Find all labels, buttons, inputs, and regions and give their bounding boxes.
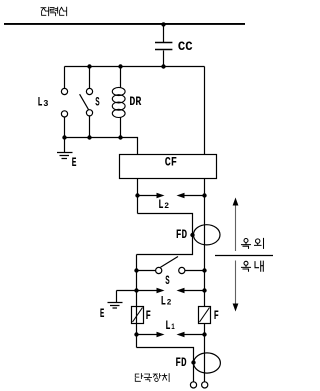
node: junction dot CC bottom on rail — [161, 64, 165, 68]
terminal circle S2 left — [156, 267, 162, 273]
node: dot row2 left — [134, 288, 138, 292]
svg-text:L: L — [158, 197, 163, 212]
국 — [145, 374, 150, 376]
node: dot S2 right — [202, 268, 206, 272]
node: dot S2 left — [134, 268, 138, 272]
svg-text:L: L — [165, 318, 170, 333]
치 — [162, 374, 166, 380]
내 — [255, 262, 259, 268]
wire S2 right lead — [185, 270, 205, 272]
svg-text:FD: FD — [175, 355, 186, 370]
장 — [153, 374, 157, 377]
node: junction dot rail/L3-ground — [62, 135, 66, 139]
선 — [59, 7, 63, 11]
wire CC lower stem — [163, 51, 165, 67]
arrowhead up — [233, 198, 239, 206]
전 — [41, 8, 46, 11]
svg-text:CF: CF — [165, 155, 177, 170]
terminal circle S1 upper — [86, 88, 92, 94]
dimension arrow row2 right (L2) — [183, 290, 205, 292]
span arrow line (outdoor) — [235, 204, 237, 252]
svg-text:L: L — [161, 293, 166, 308]
wire top rail — [65, 66, 205, 68]
label 옥외 (outdoor) hand-drawn hangul — [242, 238, 264, 248]
ground E1 stem — [64, 138, 66, 153]
node: junction dot rail/S1 — [87, 135, 91, 139]
wire DR branch upper — [120, 67, 122, 88]
wire CC upper stem — [163, 24, 165, 42]
switch S2 blade — [161, 257, 179, 268]
svg-text:3: 3 — [43, 98, 49, 109]
svg-text:DR: DR — [129, 94, 141, 109]
svg-text:FD: FD — [176, 227, 187, 242]
wire bottom rail of arrester section — [65, 138, 138, 156]
wire S2 left lead — [137, 270, 156, 272]
svg-text:S: S — [165, 273, 169, 288]
wire S1 branch upper — [89, 67, 91, 89]
transformer ring FD1 — [193, 225, 220, 245]
wire left drop to S2 — [136, 255, 138, 272]
transformer ring FD2 — [194, 353, 221, 373]
label 단국장치 (terminal equipment) hand-drawn hangul — [135, 374, 169, 382]
node: dot row1 left — [135, 193, 139, 197]
node: dot row3 right — [202, 332, 206, 336]
arrowhead down — [233, 304, 239, 312]
fuse F right — [199, 307, 211, 324]
terminal circle L3 lower — [61, 111, 67, 117]
wire DR branch lower — [120, 118, 122, 138]
svg-text:2: 2 — [164, 201, 169, 211]
wire L3 branch upper — [64, 67, 66, 89]
capacitor CC — [155, 43, 172, 50]
dimension arrow row1 right (L2) — [183, 195, 205, 197]
단 — [135, 374, 139, 377]
partition line indoor/outdoor — [215, 255, 273, 257]
box CF (coupling filter) — [120, 155, 217, 179]
wire right main line below CF — [204, 179, 206, 382]
inductor DR coil — [112, 87, 125, 117]
ground E2 stem — [116, 291, 118, 303]
wire jog3 to FD2 — [137, 348, 194, 382]
node: dot FD1 tap — [190, 233, 194, 237]
label 옥내 (indoor) hand-drawn hangul — [242, 261, 264, 271]
svg-text:F: F — [146, 308, 151, 323]
wire right riser from rail to CF — [204, 67, 206, 156]
wire left vertical row2-jog3 — [136, 271, 138, 348]
svg-text:1: 1 — [171, 322, 175, 332]
wire left drop below CF — [137, 179, 139, 214]
ground E1 symbol — [57, 153, 73, 159]
wire jog1 to FD1 — [137, 214, 193, 255]
node: dot row1 right — [202, 193, 206, 197]
외 — [256, 239, 260, 243]
dimension arrow row3 right (L1) — [183, 334, 205, 336]
svg-text:F: F — [214, 308, 219, 323]
dimension arrow row1 left (L2) — [138, 195, 159, 197]
svg-text:E: E — [72, 155, 77, 170]
node: dot row3 left — [134, 332, 138, 336]
dimension arrow row2 left (L2) — [137, 290, 159, 292]
옥 — [244, 261, 248, 265]
svg-text:CC: CC — [178, 39, 193, 54]
switch S1 blade — [80, 94, 89, 109]
wire ground E2 lead — [117, 290, 137, 292]
fuse F left — [132, 307, 144, 324]
terminal circle bottom left — [190, 382, 196, 388]
terminal circle bottom right — [202, 382, 208, 388]
label 전력선 (power line) hand-drawn hangul — [41, 7, 67, 16]
ground E2 symbol — [108, 303, 123, 309]
svg-text:2: 2 — [167, 297, 172, 307]
svg-text:L: L — [38, 95, 43, 110]
dimension arrow row3 left (L1) — [137, 334, 159, 336]
power line (전력선) — [4, 23, 245, 25]
wire S1 branch lower — [89, 116, 91, 138]
력 — [50, 8, 54, 12]
옥 — [244, 239, 248, 243]
terminal circle S1 lower — [86, 110, 92, 116]
svg-text:S: S — [95, 94, 99, 109]
node: junction dot S1 top — [87, 64, 91, 68]
node: junction dot rail/DR — [118, 135, 122, 139]
wire L3 branch lower — [64, 117, 66, 138]
node: junction dot power line / CC — [161, 22, 165, 26]
span arrow line (indoor) — [235, 261, 237, 304]
terminal circle S2 right — [179, 267, 185, 273]
node: junction dot DR top — [118, 64, 122, 68]
terminal circle L3 upper — [61, 88, 67, 94]
svg-text:E: E — [100, 306, 105, 321]
node: dot FD2 tap — [191, 360, 195, 364]
node: dot row2 right — [202, 288, 206, 292]
